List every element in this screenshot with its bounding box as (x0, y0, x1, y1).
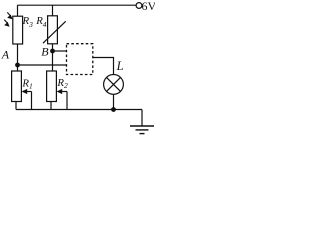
lamp L bulb (104, 75, 124, 95)
svg-text:B: B (41, 45, 49, 59)
node B junction dot (50, 49, 55, 54)
svg-text:R3: R3 (22, 15, 34, 29)
svg-text:6V: 6V (142, 0, 156, 13)
ground bar 1 (130, 125, 154, 127)
svg-text:R4: R4 (35, 15, 47, 29)
potentiometer R2 body (47, 71, 57, 102)
ground bar 3 (140, 133, 145, 135)
wire R1 wiper tail (23, 91, 32, 93)
R2 wiper arrowhead (57, 89, 63, 94)
wire R2 wiper tail (58, 91, 68, 93)
lamp cross stroke 2 (107, 77, 121, 91)
junction dot lamp-ground rail (111, 107, 116, 112)
light arrow 2 on R3 (4, 20, 7, 24)
wire left branch middle (R3 bottom to R1 top through node A) (17, 44, 19, 71)
svg-text:A: A (1, 48, 10, 62)
rheostat R4 diagonal (43, 21, 66, 43)
svg-text:R2: R2 (56, 77, 68, 90)
svg-text:R1: R1 (21, 78, 32, 91)
rheostat R4 body (48, 16, 58, 44)
wire from node B to black box upper input (53, 50, 67, 52)
R1 wiper arrowhead (22, 89, 28, 94)
black box (dashed) (67, 44, 93, 75)
terminal 6V (136, 3, 142, 9)
wire R1 wiper drop (31, 92, 33, 110)
photoresistor R3 body (13, 16, 23, 44)
wire right branch top (52, 5, 54, 16)
potentiometer R1 body (12, 71, 22, 102)
wire ground drop (141, 110, 143, 126)
wire R1 bottom stub (15, 102, 17, 110)
wire right branch middle (R4 bottom to R2 top through node B) (52, 44, 54, 71)
light arrow 1 on R3 (7, 12, 10, 16)
wire R2 wiper drop (66, 92, 68, 110)
wire left branch top (17, 5, 19, 16)
node A junction dot (15, 63, 20, 68)
wire horizontal from node A to black box lower input (18, 64, 67, 66)
wire black box output to lamp (93, 58, 114, 75)
ground bar 2 (136, 129, 149, 131)
wire top rail (18, 4, 137, 6)
svg-text:L: L (116, 59, 124, 73)
wire bottom rail (16, 109, 142, 111)
wire lamp bottom stub (113, 94, 115, 109)
lamp cross stroke 1 (107, 77, 121, 91)
wire R2 bottom stub (50, 102, 52, 110)
